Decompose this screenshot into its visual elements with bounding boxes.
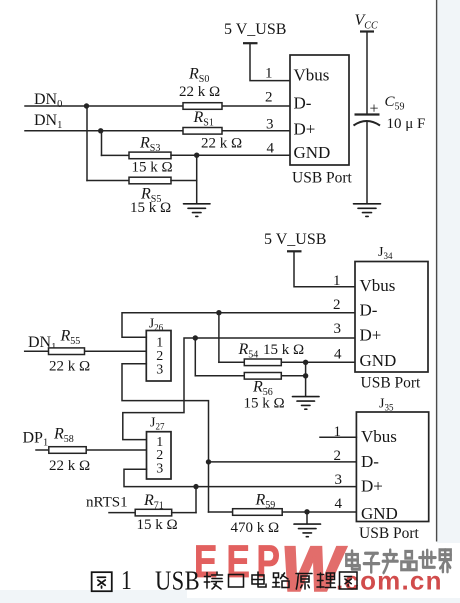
svg-text:USB Port: USB Port [292, 170, 353, 187]
svg-text:2: 2 [265, 90, 273, 106]
junction on DN0 line [84, 103, 89, 180]
junction on J35 D+ line [193, 484, 198, 513]
wire RS3 output / GND net to pin 4 [171, 153, 290, 204]
svg-text:3: 3 [266, 117, 274, 133]
jumper J26 [146, 317, 171, 382]
junction on D- line [216, 310, 221, 362]
ground (Vcc / C59) [354, 204, 381, 217]
resistor R56 15k [195, 373, 305, 412]
resistor RS3 15k [102, 135, 173, 176]
svg-text:4: 4 [335, 496, 343, 512]
svg-text:1: 1 [334, 424, 342, 440]
svg-text:USB Port: USB Port [361, 375, 422, 392]
power 5 V_USB (top section) [224, 21, 290, 81]
svg-text:USB Port: USB Port [359, 525, 420, 542]
ground (top pull-down net) [184, 204, 211, 217]
svg-text:3: 3 [156, 363, 163, 378]
svg-text:15 k Ω: 15 k Ω [263, 342, 304, 358]
connector J34 USB port [333, 245, 428, 392]
ground (J34 pull-downs) [293, 397, 320, 410]
svg-text:Vbus: Vbus [294, 66, 330, 85]
svg-text:USB: USB [155, 567, 200, 597]
jumper J27 [147, 416, 172, 480]
svg-text:15 k Ω: 15 k Ω [132, 160, 173, 176]
watermark brush text 电子产品世界 [346, 550, 450, 573]
wire DN1 to USB port pin 3 [25, 130, 290, 132]
svg-text:4: 4 [334, 347, 342, 363]
svg-text:2: 2 [334, 448, 342, 464]
junction R59 to ground [304, 509, 309, 524]
capacitor C59 10uF [354, 94, 426, 203]
svg-text:D+: D+ [361, 477, 383, 496]
USB port (top) [265, 55, 353, 187]
watermark background [187, 543, 460, 598]
resistor R58 22k [36, 426, 147, 475]
svg-text:10 μ F: 10 μ F [387, 116, 426, 132]
resistor R55 22k [25, 328, 147, 375]
svg-text:5 V_USB: 5 V_USB [224, 21, 286, 38]
svg-text:GND: GND [361, 504, 398, 523]
wire J27 pin1 to J34 D+ [123, 338, 355, 440]
connector J35 USB port [320, 397, 429, 543]
junction on D+ line [193, 335, 198, 376]
svg-text:Vbus: Vbus [360, 276, 396, 295]
svg-text:5 V_USB: 5 V_USB [264, 231, 326, 248]
svg-text:1: 1 [121, 566, 132, 596]
svg-text:Vbus: Vbus [361, 427, 397, 446]
svg-text:22 k Ω: 22 k Ω [49, 458, 90, 474]
wire J26 pin1 to J34 D- [122, 313, 355, 338]
svg-text:2: 2 [333, 297, 341, 313]
svg-text:22 k Ω: 22 k Ω [201, 136, 242, 152]
wire J27 pin3 to J35 D+ [124, 469, 356, 486]
resistor R54 15k [219, 341, 355, 366]
svg-text:nRTS1: nRTS1 [86, 495, 128, 511]
svg-text:D-: D- [361, 452, 379, 471]
svg-text:3: 3 [335, 472, 343, 488]
svg-text:3: 3 [156, 462, 163, 477]
svg-text:4: 4 [267, 141, 275, 157]
watermark logo EEPW [194, 534, 347, 603]
svg-text:D-: D- [360, 301, 378, 320]
caption 图1 USB接口电路原理图 [92, 572, 357, 591]
svg-text:D+: D+ [294, 120, 316, 139]
ground (J35 / R59) [294, 524, 321, 537]
svg-text:1: 1 [265, 66, 273, 82]
wire J26 pin3 to J35 D- net [122, 364, 209, 512]
svg-text:470 k Ω: 470 k Ω [231, 520, 280, 536]
resistor R59 470k [209, 492, 357, 537]
svg-text:GND: GND [360, 351, 397, 370]
svg-text:15 k Ω: 15 k Ω [244, 396, 285, 412]
svg-text:E: E [227, 536, 250, 587]
resistor RS1 22k [183, 109, 242, 152]
svg-text:15 k Ω: 15 k Ω [130, 200, 171, 216]
svg-text:D+: D+ [360, 326, 382, 345]
svg-text:22 k Ω: 22 k Ω [49, 359, 90, 375]
resistor R71 15k [109, 492, 196, 533]
svg-text:1: 1 [333, 273, 341, 289]
resistor RS5 15k [87, 177, 197, 216]
power 5 V_USB (middle section) [264, 231, 355, 287]
power Vcc [355, 12, 378, 114]
svg-text:GND: GND [294, 143, 331, 162]
wire DN0 to USB port pin 2 [25, 105, 290, 107]
svg-text:3: 3 [334, 321, 342, 337]
svg-text:22 k Ω: 22 k Ω [179, 84, 220, 100]
junction R54/R56 to ground [303, 360, 308, 397]
svg-text:D-: D- [294, 94, 312, 113]
junction on DN1 line [98, 128, 103, 155]
caption latin part [121, 566, 200, 596]
svg-text:15 k Ω: 15 k Ω [137, 517, 178, 533]
frame border line (right edge of scan) [436, 0, 438, 542]
resistor RS0 22k [179, 66, 222, 110]
wire J35 D- line [206, 459, 357, 464]
